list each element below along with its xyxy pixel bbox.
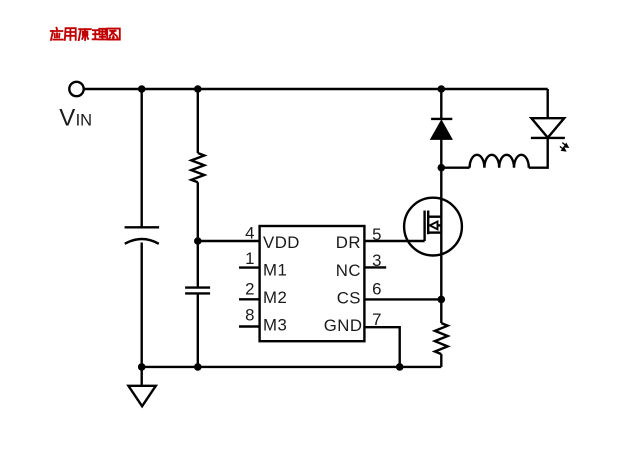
junction rail / C2 — [194, 363, 202, 371]
wire L1 to LED cathode — [529, 138, 548, 168]
pin 4 (VDD) — [245, 224, 300, 253]
junction top rail / C1 — [138, 85, 146, 93]
LED D2 — [531, 118, 565, 138]
svg-text:M2: M2 — [263, 288, 287, 307]
junction top rail / R1 — [194, 85, 202, 93]
svg-text:8: 8 — [245, 306, 255, 325]
svg-text:5: 5 — [372, 225, 382, 244]
title 应用原理图 — [51, 28, 120, 40]
pin 1 (M1) — [239, 249, 287, 280]
ground — [128, 386, 155, 406]
inductor L1 — [470, 155, 529, 168]
junction VDD node — [194, 237, 202, 245]
junction GND pin / rail — [396, 363, 404, 371]
terminal VIN — [69, 82, 83, 96]
svg-text:CS: CS — [337, 288, 361, 307]
pin 5 (DR) — [336, 225, 382, 252]
wire top rail — [84, 88, 548, 90]
mosfet Q1 — [404, 198, 462, 256]
svg-text:M3: M3 — [263, 315, 287, 334]
pin 3 (NC) — [336, 251, 386, 280]
diode D1 — [431, 119, 453, 139]
wire D1 to switch node — [440, 139, 442, 168]
LED arrows — [560, 143, 568, 151]
svg-text:DR: DR — [336, 233, 361, 252]
wire C2 top — [197, 241, 199, 288]
svg-text:7: 7 — [372, 310, 382, 329]
label VIN — [59, 104, 92, 131]
wire rail to diode D1 — [440, 89, 442, 118]
wire to ground symbol — [140, 367, 142, 386]
wire R2 bottom — [440, 354, 442, 367]
pin 8 (M3) — [239, 306, 287, 335]
svg-text:1: 1 — [245, 249, 255, 268]
wire switch node to L1 — [441, 166, 469, 168]
pin 7 (GND) — [324, 310, 382, 335]
svg-text:3: 3 — [372, 251, 382, 270]
wire R1 to VDD node — [197, 182, 199, 241]
capacitor C2 — [185, 288, 210, 294]
junction rail / C1 — [138, 363, 146, 371]
wire CS pin 6 to sense node — [364, 298, 441, 300]
wire ground rail — [142, 366, 442, 368]
junction CS node — [438, 296, 446, 304]
svg-text:4: 4 — [245, 224, 255, 243]
pin 2 (M2) — [239, 279, 287, 307]
wire C1 bottom — [140, 243, 142, 367]
wire C2 bottom — [197, 293, 199, 367]
pin 6 (CS) — [337, 279, 382, 307]
svg-text:IN: IN — [76, 111, 93, 129]
wire VDD pin 4 — [198, 240, 260, 242]
IC U1 — [260, 226, 365, 341]
wire GND pin 7 to rail — [364, 327, 399, 367]
resistor R2 — [435, 323, 448, 354]
resistor R1 — [191, 153, 204, 182]
svg-text:2: 2 — [245, 279, 255, 298]
junction switch node — [438, 164, 446, 172]
junction top rail / D1 — [438, 85, 446, 93]
wire DR pin 5 to gate — [364, 240, 424, 242]
svg-text:V: V — [59, 104, 75, 131]
wire drain-source vertical — [440, 168, 442, 300]
svg-text:GND: GND — [324, 316, 363, 335]
capacitor C1 — [125, 227, 160, 244]
wire CS node to R2 — [440, 299, 442, 323]
svg-text:NC: NC — [336, 261, 361, 280]
svg-text:VDD: VDD — [263, 233, 300, 252]
wire C1 top — [140, 89, 142, 227]
wire R1 top — [197, 89, 199, 153]
svg-text:M1: M1 — [263, 260, 287, 279]
svg-text:6: 6 — [372, 279, 382, 298]
wire rail to LED anode — [547, 89, 549, 118]
